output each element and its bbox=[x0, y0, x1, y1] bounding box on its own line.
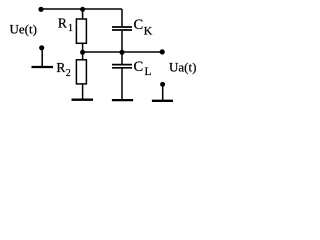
svg-text:K: K bbox=[144, 24, 153, 38]
capacitor CL bbox=[112, 65, 132, 68]
ground R2 bar bbox=[72, 99, 94, 101]
wire R2 bottom lead bbox=[82, 84, 84, 99]
wire R1 top lead bbox=[82, 9, 84, 19]
node output terminal bottom bbox=[160, 82, 165, 87]
resistor R1 bbox=[76, 19, 86, 43]
svg-text:1: 1 bbox=[68, 23, 73, 34]
node input terminal top bbox=[38, 7, 43, 12]
node junction CK/CL bbox=[120, 50, 125, 55]
wire output terminal bottom lead bbox=[162, 84, 164, 100]
node junction R1 top bbox=[80, 7, 85, 12]
svg-text:Ua(t): Ua(t) bbox=[169, 59, 196, 74]
resistor R2 bbox=[76, 60, 86, 84]
ground input bar bbox=[32, 66, 54, 68]
wire R1 bottom lead bbox=[82, 43, 84, 52]
ground output bar bbox=[152, 100, 173, 102]
wire CL bottom lead bbox=[121, 69, 123, 100]
svg-text:C: C bbox=[134, 17, 144, 33]
wire R2 top lead bbox=[82, 52, 84, 60]
svg-text:R: R bbox=[56, 60, 65, 75]
svg-text:R: R bbox=[58, 16, 67, 31]
wire CK top lead bbox=[121, 9, 123, 26]
wire middle rail bbox=[83, 51, 163, 53]
node junction R1/R2 bbox=[80, 50, 85, 55]
wire top rail bbox=[41, 8, 122, 10]
wire CK bottom lead bbox=[121, 31, 123, 52]
capacitor CK bbox=[112, 27, 132, 30]
svg-text:Ue(t): Ue(t) bbox=[10, 21, 37, 36]
svg-text:2: 2 bbox=[66, 68, 71, 79]
wire CL top lead bbox=[121, 52, 123, 64]
ground CL bar bbox=[112, 99, 133, 101]
wire input terminal bottom lead bbox=[41, 48, 43, 66]
svg-text:C: C bbox=[134, 59, 144, 75]
node output terminal top bbox=[160, 49, 165, 54]
node input terminal bottom bbox=[39, 45, 44, 50]
svg-text:L: L bbox=[145, 66, 152, 78]
